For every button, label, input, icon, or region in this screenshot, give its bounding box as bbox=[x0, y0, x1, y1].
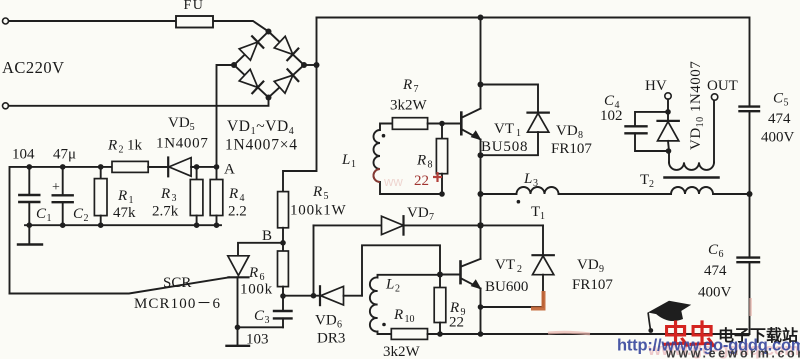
svg-text:+: + bbox=[52, 180, 60, 195]
svg-text:2: 2 bbox=[517, 264, 522, 275]
svg-text:1: 1 bbox=[47, 213, 52, 224]
svg-text:R: R bbox=[107, 138, 117, 154]
svg-text:3: 3 bbox=[533, 178, 538, 189]
transformer T2 primary bbox=[669, 162, 714, 170]
svg-text:MCR100－6: MCR100－6 bbox=[134, 296, 221, 312]
svg-text:3k2W: 3k2W bbox=[390, 98, 428, 114]
svg-text:VD: VD bbox=[556, 123, 578, 139]
svg-text:VT: VT bbox=[495, 257, 515, 273]
svg-text:L: L bbox=[523, 171, 532, 187]
svg-text:474: 474 bbox=[704, 263, 727, 279]
svg-text:2.2: 2.2 bbox=[228, 204, 247, 220]
svg-text:3k2W: 3k2W bbox=[383, 344, 421, 359]
svg-text:2: 2 bbox=[84, 213, 89, 224]
svg-text:1: 1 bbox=[351, 159, 356, 170]
diode VD5 bbox=[148, 166, 168, 168]
svg-text:1k: 1k bbox=[127, 138, 143, 154]
terminal AC top bbox=[3, 18, 9, 24]
svg-text:3: 3 bbox=[265, 315, 270, 326]
svg-text:C: C bbox=[708, 242, 719, 258]
fuse FU bbox=[176, 16, 213, 28]
resistor R8 bbox=[441, 124, 443, 139]
svg-text:FR107: FR107 bbox=[551, 141, 592, 157]
svg-text:102: 102 bbox=[600, 108, 623, 124]
svg-text:R: R bbox=[402, 77, 412, 93]
svg-text:B: B bbox=[262, 228, 272, 244]
svg-text:T: T bbox=[531, 204, 540, 220]
svg-text:22: 22 bbox=[449, 315, 464, 331]
svg-text:ww: ww bbox=[383, 174, 403, 189]
capacitor C1 plates bbox=[19, 194, 39, 196]
svg-text:100k: 100k bbox=[240, 282, 273, 298]
bridge diode D3 bottom-left bbox=[239, 69, 258, 87]
svg-text:9: 9 bbox=[599, 264, 604, 275]
wire top rail to right edge bbox=[317, 18, 750, 107]
capacitor C2 plates bbox=[53, 194, 73, 196]
svg-text:2.7k: 2.7k bbox=[152, 204, 179, 220]
polarity dot L2 bbox=[382, 323, 386, 327]
svg-text:HV: HV bbox=[645, 78, 667, 94]
svg-text:100k1W: 100k1W bbox=[290, 203, 346, 219]
terminal OUT bbox=[711, 94, 717, 100]
wire left rail y=166.9 bbox=[10, 167, 218, 294]
watermark red tint on L1 bottom curl bbox=[374, 169, 381, 182]
svg-text:1N4007×4: 1N4007×4 bbox=[225, 137, 298, 154]
node B wire to SCR anode bbox=[238, 243, 283, 256]
svg-text:DR3: DR3 bbox=[317, 331, 345, 347]
svg-text:R: R bbox=[416, 153, 426, 169]
capacitor C3 plates bbox=[274, 310, 292, 312]
svg-text:474: 474 bbox=[768, 111, 791, 127]
svg-text:VD: VD bbox=[315, 313, 337, 329]
inductor L1 bbox=[374, 124, 443, 195]
svg-text:104: 104 bbox=[12, 147, 35, 163]
svg-text:VD10 1N4007: VD10 1N4007 bbox=[688, 61, 706, 150]
wire AC top line bbox=[9, 21, 269, 32]
diode VD9 bbox=[542, 225, 544, 255]
svg-text:2: 2 bbox=[395, 284, 400, 295]
svg-text:8: 8 bbox=[428, 160, 433, 171]
bridge diode D2 top-right bbox=[274, 36, 293, 54]
svg-text:10: 10 bbox=[405, 314, 415, 325]
capacitor C6 leads bbox=[749, 194, 751, 258]
watermark bottom right bbox=[617, 301, 800, 359]
svg-text:400V: 400V bbox=[761, 130, 795, 146]
diode VD7 bbox=[314, 224, 382, 226]
svg-text:C: C bbox=[36, 206, 47, 222]
wire VD6 right up-over to L2 top node bbox=[362, 245, 440, 295]
svg-text:R: R bbox=[393, 307, 403, 323]
capacitor C4 plates bbox=[626, 125, 647, 127]
svg-text:L: L bbox=[341, 152, 350, 168]
wire bridge right node to DC+ vertical bbox=[304, 64, 317, 66]
resistor R10 bbox=[391, 329, 427, 340]
svg-text:1: 1 bbox=[540, 211, 545, 222]
svg-text:22: 22 bbox=[414, 173, 429, 189]
bridge diamond wires bbox=[234, 32, 304, 98]
svg-text:8: 8 bbox=[578, 130, 583, 141]
svg-text:VD: VD bbox=[577, 257, 599, 273]
transformer T2 core bbox=[665, 176, 719, 179]
resistor R2 bbox=[112, 161, 148, 172]
svg-text:A: A bbox=[224, 162, 235, 178]
resistor R4 bbox=[216, 167, 218, 180]
inductor L2 and top wire bbox=[370, 275, 440, 334]
svg-text:1N4007: 1N4007 bbox=[156, 136, 209, 152]
svg-text:7: 7 bbox=[414, 84, 419, 95]
bridge diode D4 bottom-right bbox=[274, 75, 293, 93]
capacitor C4 leads bbox=[635, 112, 668, 126]
watermark pink plus near R8 bbox=[374, 169, 751, 334]
wire VD7 left vertical bbox=[313, 225, 315, 295]
terminal AC bottom bbox=[3, 103, 9, 109]
resistor R7 bbox=[392, 118, 427, 130]
SCR MCR100-6 bbox=[228, 256, 249, 276]
resistor R3 bbox=[196, 167, 198, 180]
transistor VT1 bbox=[460, 113, 463, 135]
svg-text:R: R bbox=[312, 184, 322, 200]
svg-text:2: 2 bbox=[119, 145, 124, 156]
polarity dot L3/T1 bbox=[517, 200, 521, 204]
transistor VT2 bbox=[459, 262, 462, 284]
svg-text:5: 5 bbox=[784, 98, 789, 109]
svg-text:400V: 400V bbox=[698, 285, 732, 301]
svg-text:1: 1 bbox=[516, 128, 521, 139]
svg-text:6: 6 bbox=[337, 320, 342, 331]
svg-text:4: 4 bbox=[240, 193, 245, 204]
svg-text:C: C bbox=[604, 93, 615, 109]
capacitor C2 leads bbox=[62, 167, 64, 195]
diode VD6 bbox=[319, 286, 321, 305]
wire AC bottom line bbox=[9, 98, 269, 106]
wire DC+ vertical x=316.5 with jog to R5 bbox=[283, 18, 317, 192]
resistor R9 bbox=[439, 275, 441, 288]
svg-text:5: 5 bbox=[324, 191, 329, 202]
svg-text:FU: FU bbox=[184, 0, 205, 13]
svg-text:C: C bbox=[73, 206, 84, 222]
svg-text:103: 103 bbox=[246, 332, 269, 348]
wire C3 bottom to SCR cathode bbox=[238, 326, 284, 328]
diode VD8 bbox=[481, 85, 539, 113]
svg-text:BU508: BU508 bbox=[481, 139, 528, 155]
svg-text:C: C bbox=[773, 91, 784, 107]
diode VD10 bbox=[667, 112, 669, 121]
capacitor C6 plates bbox=[738, 256, 760, 258]
svg-text:7: 7 bbox=[429, 212, 434, 223]
capacitor C5 leads on right rail bbox=[749, 111, 751, 194]
svg-text:www.eeworm.com: www.eeworm.com bbox=[665, 347, 800, 359]
wire SCR gate bbox=[10, 277, 230, 293]
svg-text:R: R bbox=[117, 188, 127, 204]
polarity dot L1 bbox=[382, 134, 386, 138]
resistor R5 bbox=[278, 192, 289, 228]
svg-text:47μ: 47μ bbox=[53, 147, 76, 163]
svg-text:3: 3 bbox=[172, 193, 177, 204]
inductor L3 on main wire bbox=[481, 187, 672, 194]
resistor R1 bbox=[100, 167, 102, 179]
ground bar below SCR bbox=[227, 345, 250, 347]
svg-text:AC220V: AC220V bbox=[2, 58, 65, 77]
svg-text:VD: VD bbox=[407, 205, 429, 221]
svg-text:R: R bbox=[228, 186, 238, 202]
transformer T2 secondary bbox=[671, 187, 750, 194]
bridge diode D1 top-left bbox=[239, 42, 258, 60]
svg-text:FR107: FR107 bbox=[572, 277, 613, 293]
svg-text:T: T bbox=[640, 172, 649, 188]
wire bridge left node to node A vertical bbox=[217, 65, 235, 167]
watermark orange corner at VD9 anode bbox=[531, 291, 544, 309]
svg-text:2: 2 bbox=[649, 179, 654, 190]
svg-text:OUT: OUT bbox=[707, 78, 738, 94]
svg-text:47k: 47k bbox=[113, 205, 136, 221]
svg-text:6: 6 bbox=[719, 249, 724, 260]
capacitor C5 plates bbox=[740, 105, 760, 107]
capacitor C1 leads bbox=[28, 167, 30, 195]
resistor R6 bbox=[282, 243, 284, 251]
terminal HV bbox=[665, 93, 671, 99]
watermark faint pink on bottom rail bbox=[548, 332, 590, 334]
wire control bottom rail y=225.2 bbox=[25, 224, 221, 226]
ground bar below C1 bbox=[28, 225, 30, 244]
svg-text:L: L bbox=[385, 277, 394, 293]
watermark faint pink on right rail bbox=[749, 298, 752, 316]
wire R6 bottom to VD6 bbox=[283, 295, 320, 297]
svg-text:R: R bbox=[160, 186, 170, 202]
svg-text:C: C bbox=[254, 308, 265, 324]
svg-text:VT: VT bbox=[494, 121, 514, 137]
svg-text:BU600: BU600 bbox=[485, 279, 528, 295]
watermark graduation cap bbox=[648, 301, 691, 317]
svg-text:R: R bbox=[248, 265, 258, 281]
wire bottom rail to right bbox=[481, 333, 750, 335]
svg-text:SCR: SCR bbox=[163, 275, 191, 291]
capacitor C3 leads bbox=[282, 296, 284, 311]
svg-text:VD1~VD4: VD1~VD4 bbox=[227, 118, 294, 137]
